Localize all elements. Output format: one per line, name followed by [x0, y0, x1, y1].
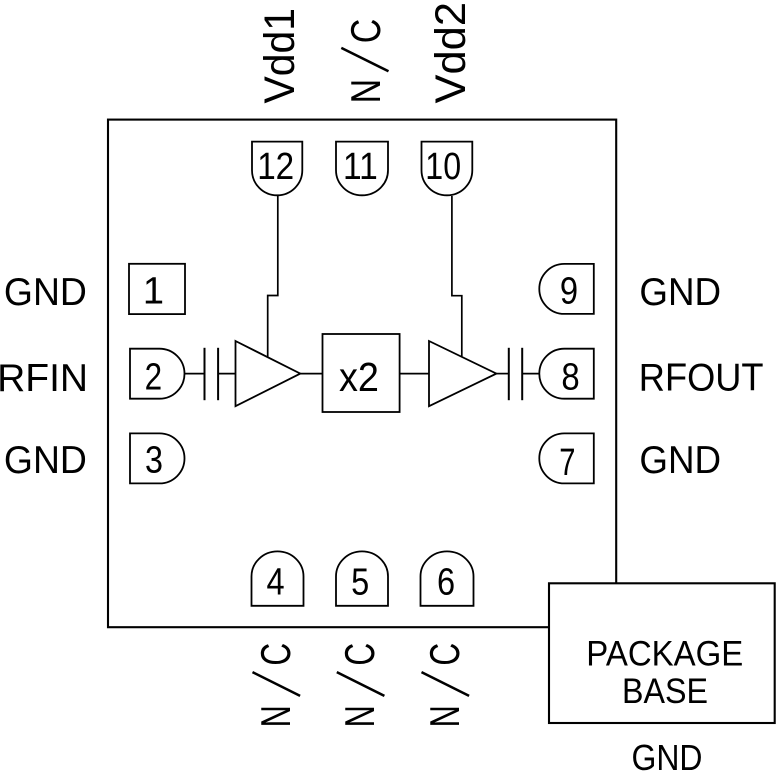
- svg-text:C: C: [336, 643, 383, 666]
- label N/C pin4 : slash: [253, 672, 301, 696]
- svg-text:N: N: [342, 79, 389, 104]
- capacitor C1: [205, 348, 219, 400]
- svg-text:GND: GND: [639, 439, 721, 482]
- pin 1 pad: [129, 264, 185, 314]
- svg-text:x2: x2: [339, 354, 379, 400]
- pin 9 pad: [539, 264, 594, 314]
- wire A1 to x2 block: [300, 373, 322, 375]
- pin 11 pad: [336, 142, 388, 196]
- amplifier A1: [236, 341, 301, 406]
- svg-text:6: 6: [437, 561, 455, 603]
- svg-text:BASE: BASE: [622, 671, 708, 711]
- pin 10 pad: [422, 142, 473, 196]
- svg-text:N: N: [252, 705, 299, 727]
- svg-text:12: 12: [257, 146, 294, 188]
- svg-text:Vdd2: Vdd2: [427, 2, 475, 104]
- svg-text:3: 3: [145, 440, 163, 482]
- pin 5 pad: [336, 551, 388, 605]
- wire Vdd1 pin12 to A1: [268, 196, 278, 357]
- svg-text:1: 1: [143, 270, 164, 312]
- capacitor C2: [509, 348, 522, 400]
- svg-text:8: 8: [561, 356, 579, 398]
- svg-text:GND: GND: [4, 271, 87, 314]
- wire Vdd2 pin10 to A2: [452, 196, 462, 356]
- svg-text:C: C: [342, 19, 389, 44]
- pin 2 pad: [130, 349, 184, 399]
- pin 4 pad: [252, 551, 304, 605]
- svg-text:GND: GND: [639, 271, 721, 314]
- svg-text:4: 4: [267, 561, 285, 603]
- package outline: [108, 120, 616, 628]
- svg-text:GND: GND: [4, 439, 87, 482]
- svg-text:N: N: [421, 705, 468, 727]
- svg-text:5: 5: [351, 561, 369, 603]
- svg-text:11: 11: [343, 146, 378, 188]
- pin 12 pad: [252, 142, 302, 196]
- svg-text:10: 10: [425, 146, 461, 188]
- svg-text:2: 2: [145, 356, 163, 398]
- svg-text:RFOUT: RFOUT: [639, 357, 764, 400]
- package base box: [549, 583, 775, 723]
- svg-text:7: 7: [559, 442, 575, 484]
- label N/C pin6 : slash: [422, 672, 470, 696]
- pin 3 pad: [130, 433, 184, 483]
- pin 8 pad: [539, 349, 594, 399]
- wire A2 to C2: [496, 373, 508, 375]
- svg-text:Vdd1: Vdd1: [256, 8, 304, 104]
- pin 6 pad: [421, 551, 474, 605]
- label N/C pin5 : slash: [337, 672, 385, 696]
- wire pin2 to C1: [185, 373, 205, 375]
- wire C1 to amplifier A1: [218, 373, 235, 375]
- frequency multiplier x2 block: [323, 334, 400, 412]
- svg-text:RFIN: RFIN: [0, 357, 88, 400]
- label N/C pin11 : slash: [341, 48, 388, 71]
- svg-text:C: C: [252, 643, 299, 666]
- wire x2 block to amplifier A2: [400, 373, 429, 375]
- svg-text:9: 9: [560, 270, 578, 312]
- svg-text:C: C: [421, 643, 468, 666]
- wire C2 to pin8: [522, 373, 539, 375]
- pin 7 pad: [539, 433, 594, 483]
- svg-text:N: N: [336, 705, 383, 727]
- svg-text:GND: GND: [632, 737, 703, 772]
- svg-text:PACKAGE: PACKAGE: [586, 633, 743, 673]
- amplifier A2: [429, 341, 496, 406]
